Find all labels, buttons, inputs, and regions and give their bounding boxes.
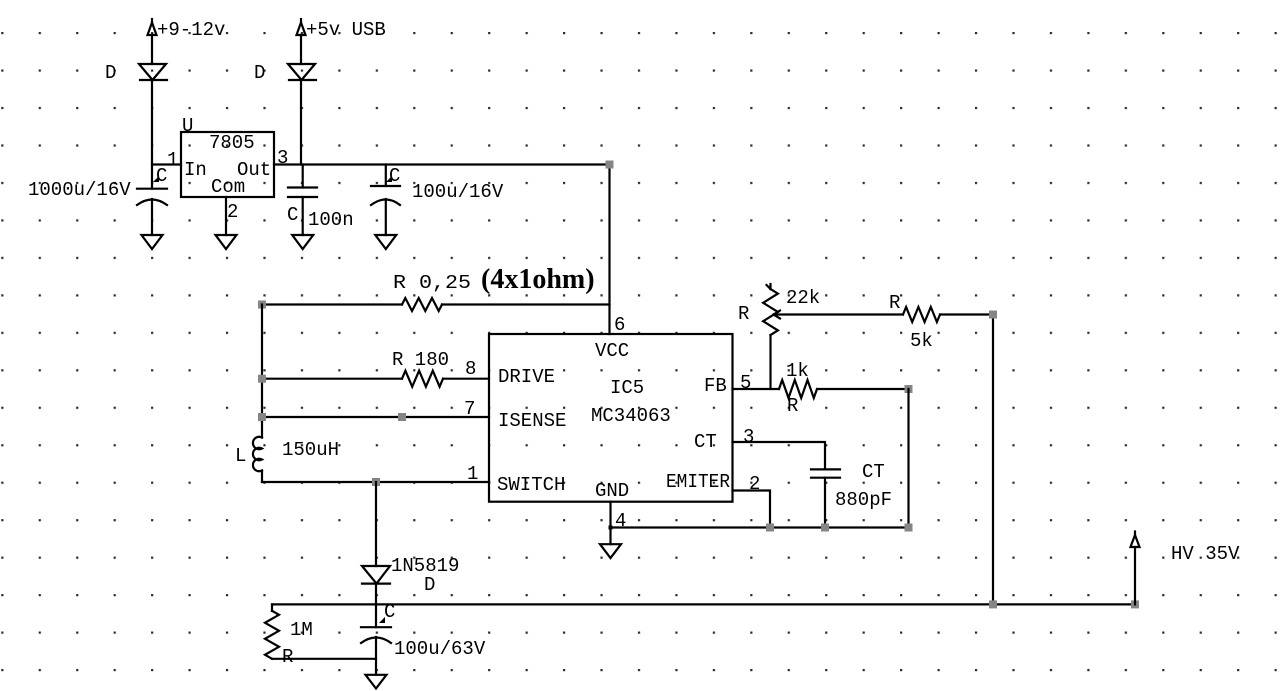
svg-text:7805: 7805	[209, 132, 255, 154]
wire GND pin 4	[609, 502, 611, 545]
capacitor C 1000u/16V	[28, 165, 167, 235]
svg-text:880pF: 880pF	[835, 489, 892, 511]
svg-text:SWITCH: SWITCH	[497, 474, 565, 496]
svg-text:U: U	[182, 115, 193, 137]
svg-text:D: D	[105, 62, 116, 84]
svg-text:C: C	[389, 165, 400, 187]
svg-text:Com: Com	[211, 176, 245, 198]
svg-text:In: In	[184, 159, 207, 181]
wire FB pin 5	[733, 388, 780, 390]
junction	[905, 524, 913, 532]
wire left rail	[261, 305, 263, 422]
svg-text:GND: GND	[595, 480, 629, 502]
svg-text:FB: FB	[704, 375, 727, 397]
svg-text:DRIVE: DRIVE	[498, 366, 555, 388]
trimmer R 22k	[738, 284, 903, 389]
inductor L 150uH	[235, 417, 339, 482]
svg-text:R 180: R 180	[392, 349, 449, 371]
svg-text:HV 35V: HV 35V	[1171, 543, 1240, 565]
diode D (input)	[105, 62, 167, 84]
junction	[258, 301, 266, 309]
svg-text:R: R	[889, 292, 900, 314]
capacitor CT 880pF	[811, 461, 892, 528]
svg-text:VCC: VCC	[595, 340, 629, 362]
resistor R 180	[262, 349, 489, 387]
junction	[821, 524, 829, 532]
wire CT pin 3	[733, 442, 826, 469]
svg-text:6: 6	[614, 314, 625, 336]
svg-text:R: R	[282, 646, 293, 668]
svg-text:R: R	[738, 303, 749, 325]
wire pin1	[152, 163, 181, 165]
wire 5k output drop	[992, 315, 994, 605]
wire switch node drop	[375, 482, 377, 566]
regulator U 7805	[167, 115, 288, 223]
op-amp U IC5 MC34063 box	[489, 314, 760, 532]
svg-text:+9-12v: +9-12v	[157, 19, 225, 41]
wire	[300, 80, 302, 165]
capacitor C 100u/16V	[371, 165, 504, 236]
svg-text:7: 7	[464, 398, 475, 420]
junction	[258, 413, 266, 421]
svg-text:2: 2	[227, 201, 238, 223]
wire pin2	[225, 197, 227, 235]
junction	[606, 161, 614, 169]
wire	[151, 35, 153, 64]
svg-text:CT: CT	[694, 431, 717, 453]
diode D 1N5819	[362, 555, 459, 604]
ground	[216, 235, 237, 249]
svg-text:1k: 1k	[786, 360, 809, 382]
svg-text:3: 3	[277, 147, 288, 169]
resistor R 1k	[779, 360, 909, 417]
wire VCC drop	[608, 165, 610, 335]
resistor R 0.25 (4x1ohm)	[262, 264, 610, 311]
junction	[609, 526, 613, 530]
svg-text:5k: 5k	[910, 330, 933, 352]
svg-text:R 0,25: R 0,25	[393, 272, 471, 294]
svg-text:R: R	[787, 395, 798, 417]
wire bottom rail to right	[611, 526, 909, 528]
svg-text:C: C	[156, 165, 167, 187]
ground	[366, 675, 387, 689]
capacitor C 100n	[287, 165, 354, 236]
svg-text:2: 2	[749, 473, 760, 495]
svg-text:1M: 1M	[290, 619, 313, 641]
svg-text:EMITER: EMITER	[666, 471, 730, 493]
junction	[1131, 600, 1139, 608]
svg-text:MC34063: MC34063	[591, 405, 671, 427]
junction	[258, 375, 266, 383]
wire +5V rail	[274, 163, 610, 165]
svg-text:100u/16V: 100u/16V	[412, 181, 504, 203]
wire EMITTER pin 2	[733, 491, 771, 528]
svg-text:100n: 100n	[308, 209, 354, 231]
svg-text:IC5: IC5	[610, 377, 644, 399]
svg-text:(4x1ohm): (4x1ohm)	[481, 264, 595, 295]
wire	[151, 80, 153, 189]
svg-text:150uH: 150uH	[282, 439, 339, 461]
junction	[989, 311, 997, 319]
svg-text:1000u/16V: 1000u/16V	[28, 179, 131, 201]
svg-text:1: 1	[167, 149, 178, 171]
wire	[300, 35, 302, 64]
svg-text:D: D	[424, 574, 435, 596]
junction	[905, 385, 913, 393]
supply arrow +5V USB	[297, 19, 386, 41]
wire output rail HV	[272, 603, 1135, 605]
supply arrow HV 35V	[1131, 532, 1241, 566]
svg-text:L: L	[235, 445, 246, 467]
wire SWITCH pin 1	[262, 481, 489, 483]
svg-text:CT: CT	[862, 461, 885, 483]
junction	[398, 413, 406, 421]
resistor R 1M	[265, 604, 376, 668]
svg-text:3: 3	[743, 426, 754, 448]
svg-text:8: 8	[465, 358, 476, 380]
svg-text:ISENSE: ISENSE	[498, 410, 566, 432]
svg-text:C: C	[384, 601, 395, 623]
wire ISENSE pin 7	[262, 416, 489, 418]
ground	[292, 235, 313, 249]
diode D (USB)	[254, 62, 316, 84]
capacitor C 100u/63V	[361, 601, 486, 675]
svg-text:100u/63V: 100u/63V	[394, 638, 486, 660]
svg-text:5: 5	[740, 372, 751, 394]
resistor R 5k	[889, 292, 993, 352]
junction	[766, 524, 774, 532]
svg-text:22k: 22k	[786, 287, 820, 309]
ground	[375, 235, 396, 249]
svg-text:D: D	[254, 62, 265, 84]
wire FB divider drop	[907, 389, 909, 528]
svg-text:4: 4	[615, 510, 626, 532]
junction	[372, 478, 380, 486]
svg-text:1: 1	[467, 463, 478, 485]
svg-text:+5v USB: +5v USB	[306, 19, 386, 41]
junction	[989, 600, 997, 608]
svg-text:C: C	[287, 204, 298, 226]
supply arrow +9-12V	[148, 19, 226, 41]
ground	[142, 235, 163, 249]
ground	[600, 544, 621, 558]
wire HV output riser	[1134, 547, 1136, 604]
